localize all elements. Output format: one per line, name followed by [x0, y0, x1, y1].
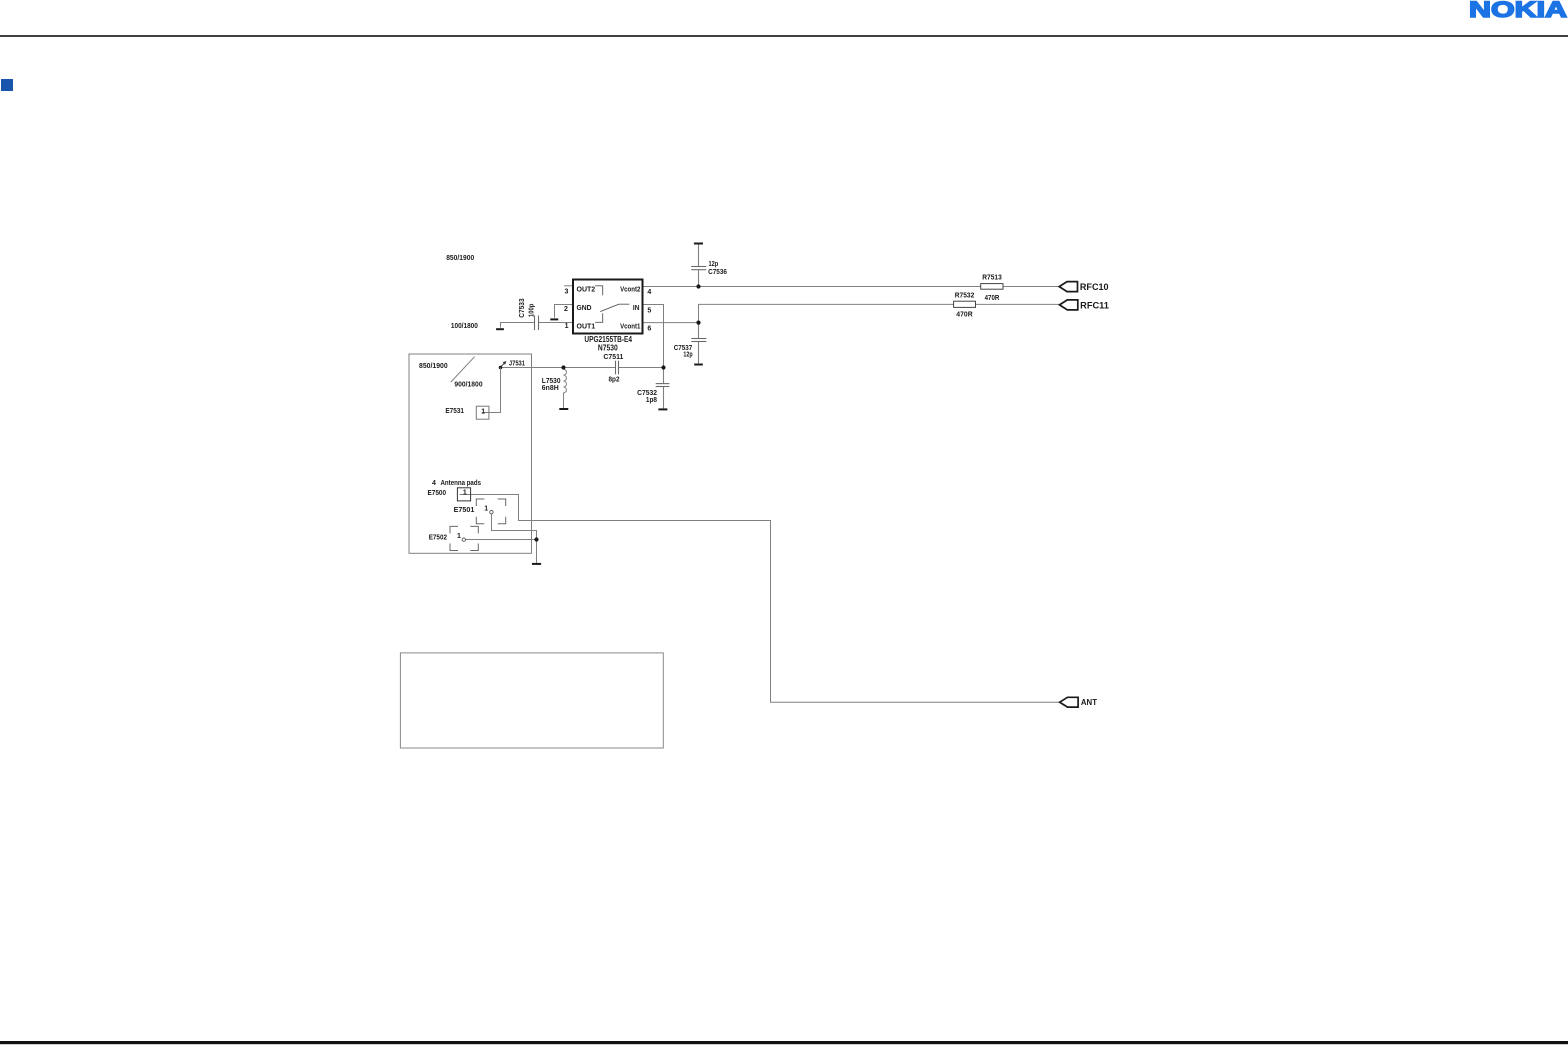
- wire pin1: [539, 322, 574, 324]
- svg-text:C7511: C7511: [603, 352, 623, 361]
- svg-text:E7501: E7501: [454, 505, 475, 514]
- junction J7531: [499, 366, 503, 370]
- wire to ground: [536, 540, 538, 563]
- wire pin5 IN down: [643, 305, 664, 368]
- wire E7500 to ANT: [460, 495, 1060, 703]
- junction L7530 top: [561, 365, 565, 369]
- svg-text:RFC10: RFC10: [1080, 282, 1109, 292]
- wire pin4 net to RFC10: [643, 286, 1060, 288]
- svg-text:1: 1: [481, 408, 485, 415]
- svg-text:1p8: 1p8: [646, 395, 657, 404]
- svg-text:12p: 12p: [683, 350, 693, 359]
- svg-text:3: 3: [565, 289, 569, 296]
- svg-text:J7531: J7531: [509, 359, 525, 368]
- svg-text:Vcont2: Vcont2: [620, 285, 640, 294]
- svg-text:C7533: C7533: [517, 298, 526, 317]
- junction IN/C7511/C7532: [661, 365, 665, 369]
- wire J7531 to E7531: [482, 368, 501, 413]
- svg-text:1: 1: [484, 505, 488, 512]
- wire pin2 to ground: [555, 305, 574, 318]
- svg-text:Antenna pads: Antenna pads: [441, 480, 482, 487]
- node J7531: [499, 366, 502, 369]
- pad E7502 (corner marks): [450, 526, 478, 550]
- svg-text:1: 1: [457, 533, 461, 540]
- IC U N7530 box: [573, 280, 643, 334]
- svg-text:E7531: E7531: [445, 406, 464, 415]
- resistor R7513: [981, 284, 1003, 290]
- resistor R7532: [954, 301, 976, 307]
- wire E7502 net: [466, 539, 537, 541]
- svg-text:R7532: R7532: [955, 291, 975, 300]
- svg-text:N7530: N7530: [598, 343, 618, 352]
- antenna module box: [409, 354, 532, 553]
- ground C7537: [694, 364, 703, 366]
- svg-text:5: 5: [647, 308, 651, 315]
- svg-text:8p2: 8p2: [609, 375, 620, 384]
- wire pin3 stub: [564, 285, 573, 287]
- svg-text:6: 6: [647, 325, 651, 332]
- svg-text:E7502: E7502: [429, 533, 447, 542]
- pad E7500: [457, 488, 470, 501]
- inductor L7530: [564, 368, 567, 408]
- op node wire y367.5: [501, 367, 616, 369]
- svg-text:R7513: R7513: [982, 273, 1002, 282]
- wire C7533 left: [501, 323, 535, 328]
- pad E7501 (corner marks): [476, 499, 505, 524]
- band select diagonal: [451, 357, 475, 382]
- ground E7501/E7502: [532, 563, 541, 565]
- ground C7536 top: [694, 243, 703, 245]
- header rule: [0, 35, 1568, 37]
- pad E7531: [476, 406, 489, 419]
- footer rule: [0, 1041, 1568, 1044]
- ground C7532: [658, 408, 667, 410]
- svg-text:C7536: C7536: [708, 267, 727, 276]
- svg-text:1: 1: [565, 323, 569, 330]
- svg-text:850/1900: 850/1900: [446, 253, 474, 262]
- capacitor C7536: [691, 244, 706, 287]
- capacitor C7511: [616, 361, 619, 375]
- svg-text:1: 1: [463, 490, 467, 497]
- IC internal OUT1 stub: [595, 313, 603, 322]
- wire E7501 net: [492, 514, 537, 540]
- svg-text:4: 4: [647, 289, 651, 296]
- section blue square: [1, 79, 13, 91]
- svg-text:NOKIA: NOKIA: [1469, 0, 1567, 22]
- svg-text:E7500: E7500: [428, 488, 447, 497]
- IC internal OUT2 stub: [595, 286, 603, 296]
- capacitor C7532: [656, 368, 670, 409]
- svg-text:OUT2: OUT2: [577, 285, 596, 294]
- connector RFC11: [1060, 300, 1078, 310]
- ground L7530: [559, 408, 568, 410]
- svg-text:100p: 100p: [527, 303, 536, 317]
- svg-text:6n8H: 6n8H: [542, 383, 559, 392]
- wire pin6 net: [643, 304, 1060, 322]
- svg-text:ANT: ANT: [1081, 697, 1097, 707]
- ground C7533: [496, 328, 504, 330]
- ground pin2: [550, 318, 558, 320]
- junction C7537/Vcont1: [696, 321, 700, 325]
- capacitor C7537: [691, 323, 706, 364]
- svg-text:RFC11: RFC11: [1080, 300, 1109, 310]
- svg-text:900/1800: 900/1800: [454, 380, 482, 389]
- IC internal switch arm: [600, 304, 629, 311]
- connector RFC10: [1059, 282, 1077, 292]
- svg-text:470R: 470R: [956, 309, 973, 318]
- svg-text:4: 4: [432, 480, 436, 487]
- svg-text:Vcont1: Vcont1: [620, 321, 640, 330]
- svg-text:2: 2: [564, 306, 568, 313]
- capacitor C7533: [535, 316, 539, 331]
- note rectangle: [400, 653, 663, 748]
- svg-text:850/1900: 850/1900: [419, 361, 448, 370]
- junction C7536/Vcont2: [696, 284, 700, 288]
- svg-text:470R: 470R: [985, 293, 1000, 302]
- svg-text:OUT1: OUT1: [577, 321, 596, 330]
- junction E7501/E7502: [534, 537, 538, 541]
- svg-text:100/1800: 100/1800: [451, 321, 478, 330]
- svg-text:GND: GND: [577, 303, 593, 312]
- svg-text:IN: IN: [633, 303, 640, 312]
- connector ANT: [1060, 697, 1078, 707]
